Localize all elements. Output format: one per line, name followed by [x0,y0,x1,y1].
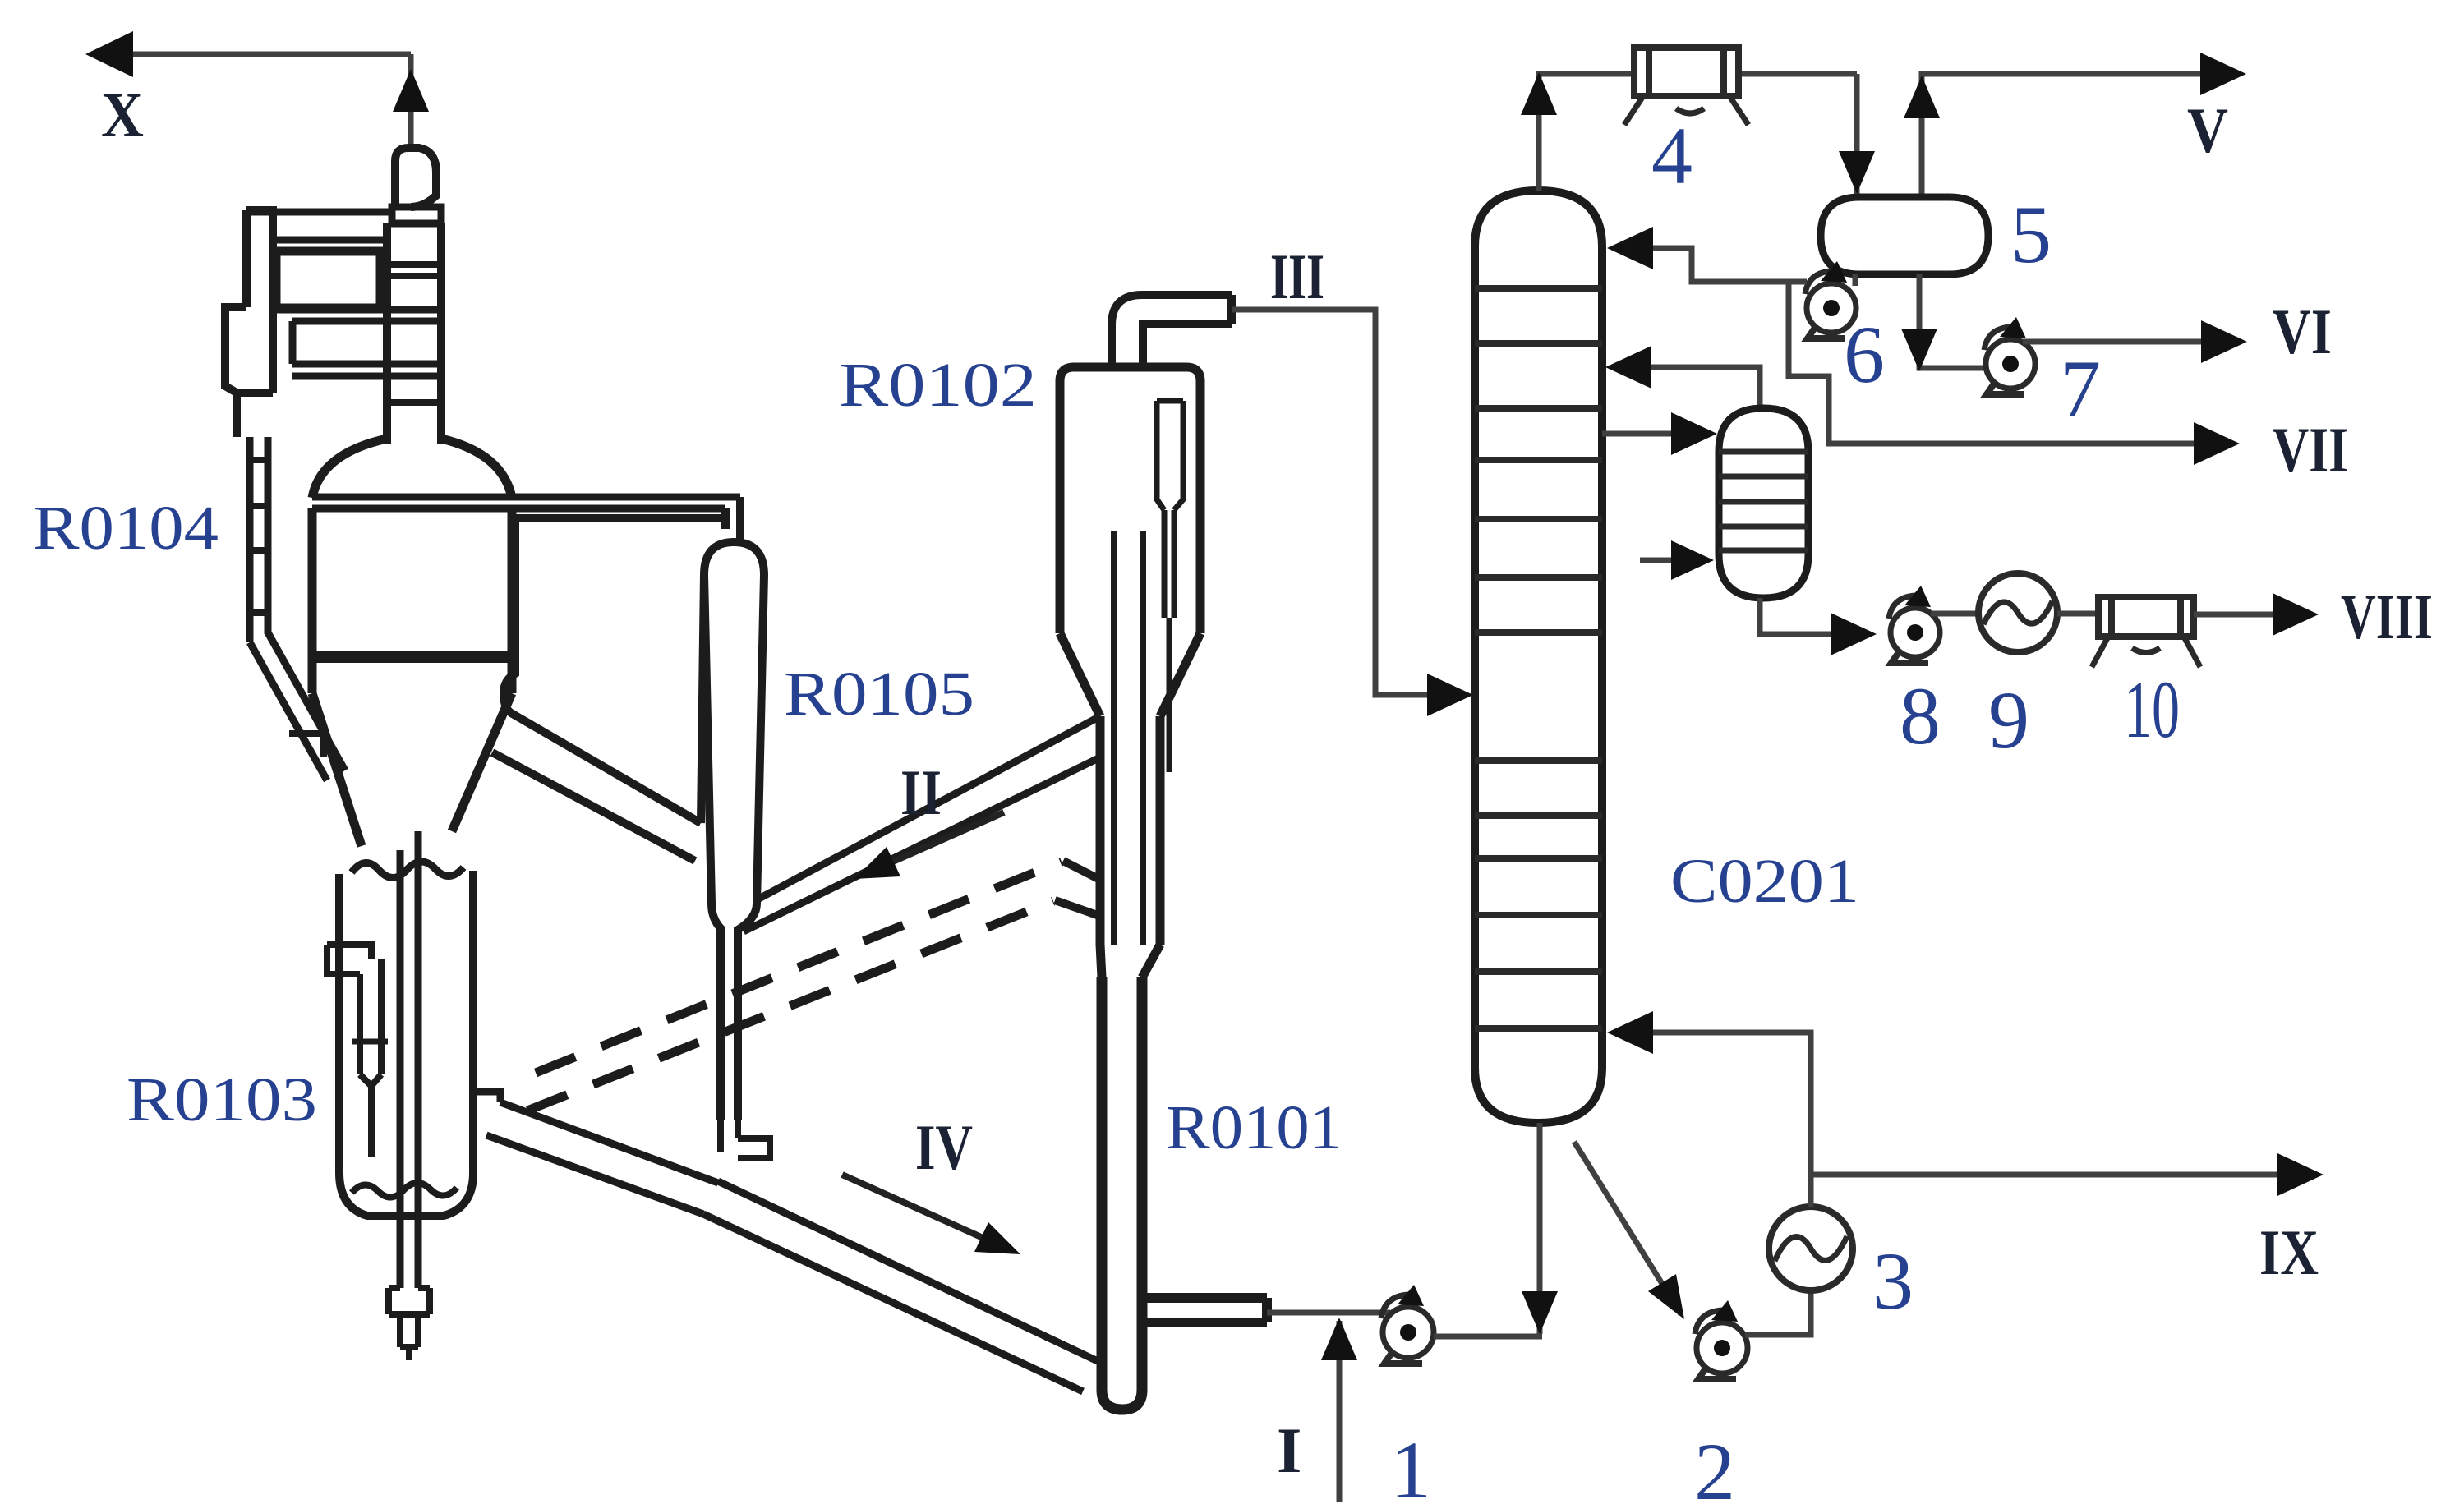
R0104 top knob (cyclone outlet) [395,148,436,207]
standpipe from R0104 top section [250,437,268,642]
vessel R0105 [704,542,764,1120]
heat exchanger 9 [1978,573,2057,652]
arrow up on drum vapor line [1904,76,1940,118]
dashed crossover pipe lower [527,901,1053,1111]
svg-text:V: V [2187,94,2228,166]
R0104 top bridge outline [246,210,273,307]
arrow into pump 8 [1831,613,1877,655]
wire stripper bottoms to pump 8 [1760,598,1831,634]
svg-text:2: 2 [1694,1426,1735,1504]
wire R0104 vent riser to X [408,54,414,149]
reboiler HX 3 [1769,1207,1853,1290]
R0104 cone [312,693,512,846]
wire feed I [1337,1321,1343,1502]
svg-text:IV: IV [915,1111,973,1183]
arrow down to pump 7 [1901,329,1937,371]
R0102 internal riser lines [1114,531,1143,945]
svg-text:VI: VI [2273,296,2332,367]
R0104 upper right column [387,223,441,444]
arrow reflux into column [1607,227,1653,269]
crossover solid ends at riser [1055,861,1102,917]
wire stream X line [107,52,411,57]
R0103 internal tube [360,959,381,1157]
standpipe elbow to R0103 [250,632,345,780]
annotation arrow II [873,812,1004,871]
arrow IX [2277,1153,2324,1196]
wire condenser outlet down to drum [1854,74,1860,194]
pump 7 [1984,317,2035,394]
svg-text:7: 7 [2060,343,2101,435]
R0104 knob collar [392,207,441,223]
svg-text:IX: IX [2259,1217,2319,1288]
arrow into drum top [1839,151,1875,194]
svg-text:1: 1 [1390,1424,1431,1504]
wire stripper vapor to column [1619,367,1760,408]
wire HX 9 to cooler 10 [2057,611,2098,617]
wire pump 1 to column bottom junction [1434,1334,1542,1340]
arrow column bottoms down [1522,1291,1558,1334]
wire column draw to stripper [1602,431,1674,437]
R0104 grid line [312,651,512,663]
pump 2 [1695,1300,1748,1379]
svg-text:6: 6 [1844,309,1885,400]
svg-text:X: X [101,79,144,150]
R0101 riser tube [1102,977,1142,1390]
arrow up overhead [1521,72,1557,115]
R0104 second bar [292,321,441,376]
dashed crossover pipe upper [536,862,1062,1073]
svg-text:R0101: R0101 [1166,1093,1343,1162]
R0104 left wide box wall [225,307,273,437]
wire reflux pump 6 to column [1620,248,1807,282]
R0102 outlet elbow pipe [1112,295,1232,367]
R0104 upper window box [276,251,380,308]
svg-text:R0103: R0103 [127,1065,317,1134]
solid transfer pipe II from R0105 to R0102 cone [744,716,1100,931]
wire III from elbow to column [1232,310,1464,695]
R0104 dome base double line [312,497,740,508]
R0103 shell [339,871,473,1216]
annotation arrow IV [842,1175,996,1244]
svg-text:C0201: C0201 [1670,847,1859,916]
R0102 lower taper to riser [1100,945,1160,977]
funnel hopper below transfer line [504,497,740,823]
arrow stripper vapor into column [1605,346,1651,389]
arrow VII [2194,422,2240,465]
svg-text:10: 10 [2124,664,2180,755]
wire pump 6 branch to VII [1789,282,2223,444]
R0104 dome [312,439,512,498]
svg-text:VII: VII [2273,414,2348,485]
wire drum bottom to pump 7 [1919,274,1986,368]
wire R0101 outlet to pump 1 [1267,1310,1390,1316]
wire column bottoms down [1537,1123,1543,1334]
svg-text:I: I [1277,1414,1301,1486]
svg-text:R0102: R0102 [839,351,1037,420]
wire small inlet to stripper [1640,558,1676,563]
svg-text:8: 8 [1900,670,1941,761]
R0103 internal tube hook [327,945,371,974]
svg-text:VIII: VIII [2341,581,2433,652]
transfer pipe IV to R0101 riser [703,1181,1098,1391]
svg-text:3: 3 [1872,1235,1914,1327]
R0103 internal tube tick [352,1039,388,1045]
svg-text:4: 4 [1651,110,1693,201]
wire drum to pump 6 [1853,274,1858,286]
wire pump 8 to HX 9 [1931,611,1978,617]
R0101 riser U-bottom [1102,1390,1142,1410]
column C0201 shell [1475,191,1602,1123]
R0103 standpipe foot [389,1288,430,1314]
arrow into pump 2 [1648,1274,1684,1319]
R0103 inner standpipe from R0104 [400,831,418,1288]
stripper trays [1719,452,1808,550]
column trays [1475,288,1602,1028]
arrow V [2200,53,2246,95]
wire pump 2 to reboiler 3 [1745,1290,1811,1335]
R0104 column bands [387,264,441,402]
R0103 standpipe tip [400,1314,418,1360]
standpipe bellows ticks [246,460,271,613]
arrow small inlet [1671,540,1714,580]
wire pump 7 to VI [2023,339,2229,345]
pump 6 [1805,261,1856,338]
R0101 bottom outlet pipe [1142,1298,1267,1322]
arrow up on vent riser [393,69,429,112]
arrow draw into stripper [1671,412,1717,455]
arrow VIII [2273,593,2319,636]
wire cooler 10 to VIII [2194,612,2301,618]
R0102 lower barrel [1100,716,1160,945]
vessel R0102 body [1060,367,1200,633]
R0104 shell walls [312,508,512,693]
wire column bottoms diagonal to pump 2 [1574,1142,1681,1314]
svg-text:R0104: R0104 [33,494,219,563]
svg-text:R0105: R0105 [784,660,974,729]
standpipe elbow tab [289,734,324,757]
R0103 bottom wavy line [352,1183,457,1198]
transfer pipe R0103 to riser elbow [486,1102,718,1214]
cooler 10 body [2092,597,2200,667]
arrow feed I up [1321,1318,1357,1360]
svg-text:9: 9 [1988,674,2029,766]
R0103 top wavy line [352,862,463,878]
R0104 mid bar [276,310,441,321]
R0104 top bridge bar [246,212,392,240]
arrow reboiler return into column [1607,1011,1653,1054]
reflux drum 5 [1821,197,1988,274]
arrow X (left) [85,31,133,77]
wire column overhead to condenser [1539,74,1857,191]
svg-text:5: 5 [2010,189,2052,280]
arrow III feed into column [1427,674,1473,716]
wire IX line [1811,1172,2305,1178]
R0102 cone [1060,633,1200,716]
arrow VI [2201,320,2247,363]
condenser 4 body [1624,48,1748,125]
wire reboiler riser and IX branch [1620,1033,1811,1207]
R0102 internal dipleg [1157,401,1183,772]
svg-text:II: II [900,757,942,828]
wire drum vapor to V [1922,74,2228,194]
pump 1 [1381,1285,1434,1364]
pump 8 [1889,586,1940,663]
side stripper shell [1719,408,1808,598]
R0105 bottom elbow square [721,1120,770,1158]
funnel lower pipe line from R0104 cone [492,752,695,861]
R0103 outlet step [473,1092,500,1102]
svg-text:III: III [1270,241,1324,312]
